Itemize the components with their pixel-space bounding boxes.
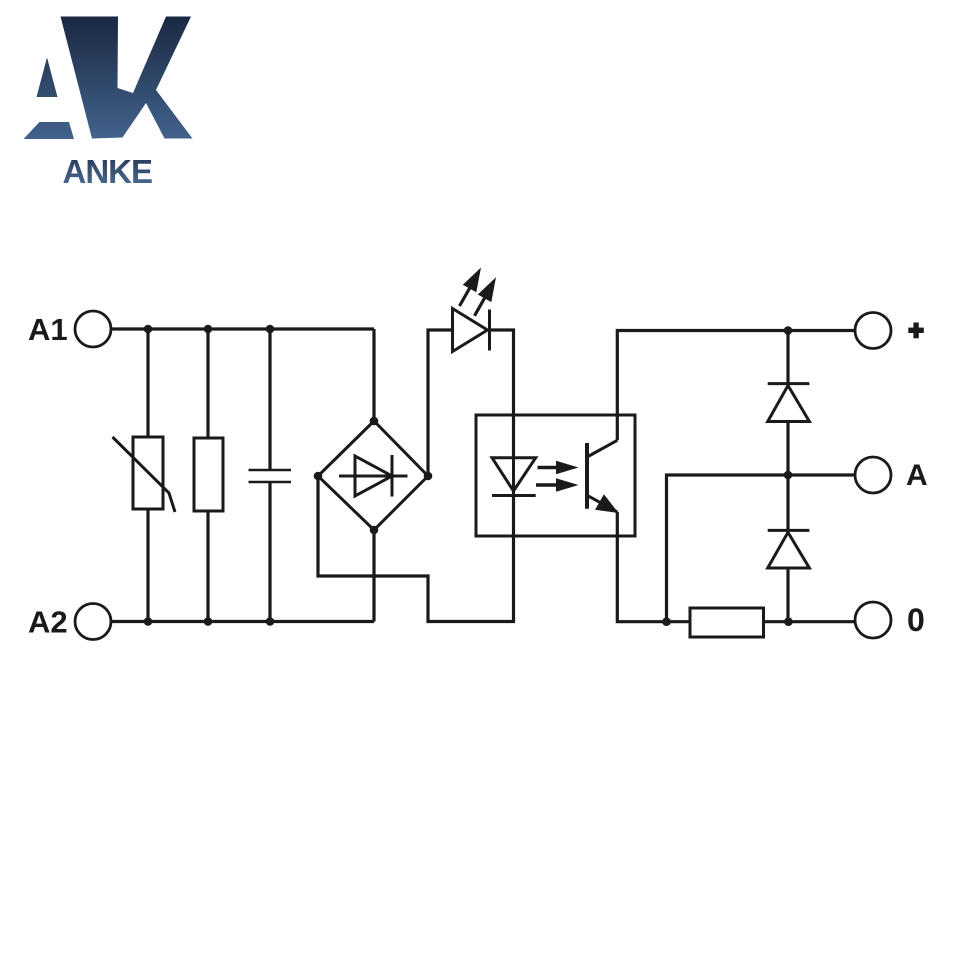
junction emitter/A branch [662,617,671,626]
junction top varistor [144,325,153,334]
junction bridge top [370,417,379,426]
junction + rail diode [784,326,793,335]
LED emission arrow 1 [460,268,482,307]
optocoupler light arrow 1 [538,461,579,474]
capacitor C1 [249,470,292,482]
junction 0 rail diode [784,617,793,626]
wire capacitor branch [268,329,271,622]
junction bottom varistor [144,617,153,626]
wire varistor branch [146,329,149,622]
optocoupler U1 body [476,415,635,536]
wire diode chain upper [786,331,789,476]
wire resistor branch [206,329,209,622]
wire A branch vertical [667,475,856,622]
junction bridge bottom [370,526,379,535]
ANKE logo monogram AK [24,17,193,140]
resistor R1 [194,438,223,511]
phototransistor emitter arrowhead [595,494,618,513]
junction top resistor [204,325,213,334]
wire R2 to 0 terminal [764,620,856,623]
optocoupler LED [492,458,536,497]
terminal A [855,457,891,493]
resistor R2 [690,608,764,637]
bridge rectifier BR1 diamond [318,421,428,530]
terminal + [855,313,891,349]
wire LED cathode to optocoupler input [490,330,514,458]
junction bridge left [314,472,323,481]
svg-text:A2: A2 [28,605,68,640]
LED emission arrow 2 [475,277,497,316]
wire bridge left to opto LED return (stair) [318,476,514,622]
wire bridge top feed [372,329,375,421]
varistor RV1 [113,437,176,512]
svg-text:A: A [906,459,928,492]
junction bridge right [424,472,433,481]
svg-text:A1: A1 [28,312,68,347]
wire diode chain lower [786,475,789,622]
diode D2 (+ to A) [768,384,810,422]
wire top-left rail A1 to bridge [111,327,374,330]
LED D1 [453,309,490,352]
diode D3 (A to 0) [768,530,810,568]
phototransistor Q1 [587,440,617,512]
optocoupler light arrow 2 [536,478,579,491]
terminal 0 [855,602,891,638]
svg-text:0: 0 [907,602,925,638]
wire bottom-left rail A2 [111,620,374,623]
junction top capacitor [266,325,275,334]
wire bridge right up to LED anode [428,330,453,476]
junction bottom capacitor [266,617,275,626]
junction bottom resistor [204,617,213,626]
svg-text:ANKE: ANKE [63,153,153,190]
wire emitter down to 0 rail [617,512,690,622]
wire bridge bottom to A2 rail [372,530,375,622]
terminal A2 [75,604,111,640]
terminal A1 [75,311,111,347]
wire collector to + rail [617,331,855,441]
node label + [908,323,924,339]
bridge internal diode [339,455,408,497]
junction A rail diode [784,471,793,480]
